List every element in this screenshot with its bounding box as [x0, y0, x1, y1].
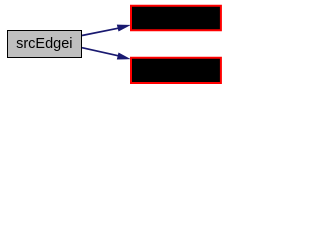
node srcEdgei (gray box) [8, 31, 82, 58]
arrowhead bottom [117, 53, 130, 59]
arrowhead top [117, 25, 130, 31]
edge to top red box (wire) [82, 25, 130, 36]
svg-text:srcEdgei: srcEdgei [16, 36, 72, 52]
edge to bottom red box (wire) [82, 48, 130, 60]
top red box node [131, 6, 221, 31]
bottom red box node [131, 58, 221, 83]
